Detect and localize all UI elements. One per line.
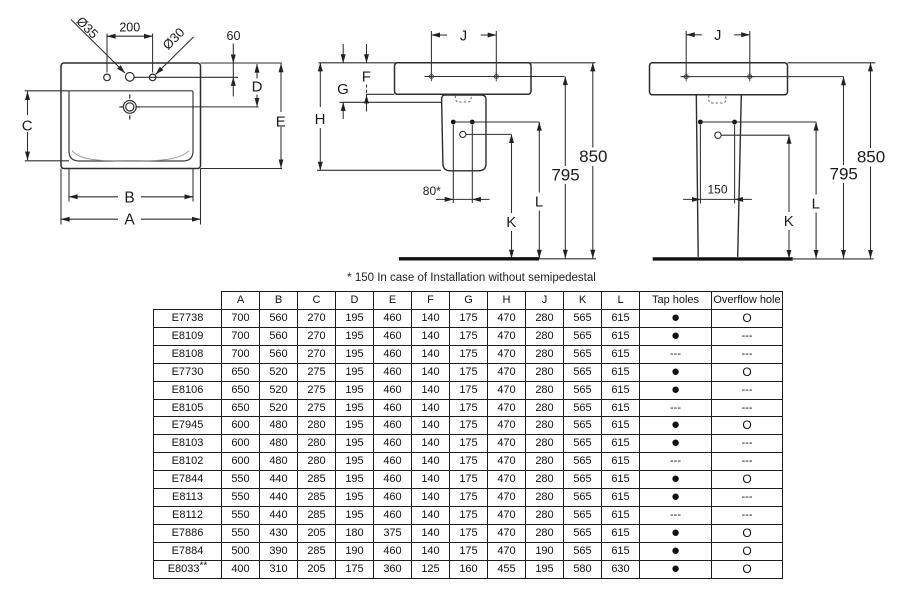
semipedestal view: basin body: [395, 63, 532, 95]
drain hole line to dim K: [466, 133, 512, 135]
svg-text:C: C: [22, 118, 33, 135]
svg-text:850: 850: [579, 147, 607, 166]
basin fixing holes line: [425, 76, 565, 78]
plan view: basin outer rim: [61, 63, 201, 169]
svg-text:D: D: [252, 79, 263, 96]
pedestal left edge: [696, 95, 698, 257]
pedestal view: basin body: [650, 63, 788, 95]
pedestal drain hole: [715, 132, 721, 138]
pedestal drain recess (dashed): [709, 95, 726, 103]
dim D: [256, 64, 258, 79]
basin fixing hole left (pedestal view): [682, 72, 691, 81]
dim F: [366, 44, 368, 63]
semipedestal body: [442, 95, 486, 171]
plan view: basin bottom edge extension: [201, 168, 283, 170]
pedestal fixing holes line to dim L: [700, 121, 816, 123]
svg-text:F: F: [362, 69, 371, 86]
dim A extension lines: [60, 169, 62, 225]
dim A: [61, 218, 118, 220]
semipedestal fixing hole left: [451, 120, 456, 125]
plan view: tap hole left: [104, 74, 111, 81]
dim 80* extension lines: [452, 125, 454, 203]
svg-text:K: K: [506, 214, 516, 231]
dim 850 (pedestal view): [870, 63, 872, 148]
semipedestal view: wall reference line: [319, 62, 596, 64]
dim 850 (semipedestal view): [592, 63, 594, 148]
svg-text:A: A: [124, 212, 135, 229]
dim K (semipedestal view): [511, 134, 513, 213]
svg-text:H: H: [315, 111, 326, 128]
dim B extension lines: [68, 168, 70, 202]
semipedestal fixing hole right: [470, 120, 475, 125]
dim 200 extension lines: [106, 34, 108, 73]
svg-text:200: 200: [119, 21, 140, 35]
svg-text:850: 850: [857, 148, 885, 167]
svg-text:* 150 In case of Installation: * 150 In case of Installation without se…: [347, 272, 596, 284]
plan view: bowl floor curve: [72, 151, 189, 162]
semipedestal view: fixing level line: [340, 101, 442, 103]
svg-text:G: G: [337, 81, 349, 98]
leader line diameter 30: [156, 37, 194, 74]
svg-text:L: L: [812, 196, 820, 213]
svg-text:J: J: [714, 28, 721, 44]
svg-text:B: B: [124, 189, 134, 206]
svg-text:Ø30: Ø30: [160, 25, 188, 53]
svg-text:795: 795: [830, 165, 858, 184]
pedestal view: basin top edge extension: [788, 62, 876, 64]
svg-text:L: L: [535, 194, 543, 211]
faucet centreline to dim D: [140, 106, 258, 108]
svg-text:80*: 80*: [423, 184, 441, 198]
svg-text:795: 795: [551, 166, 579, 185]
semipedestal view: basin bottom extension: [366, 93, 395, 95]
dim 200: [107, 35, 153, 37]
faucet symbol: [119, 94, 140, 119]
semipedestal drain recess (dashed): [455, 96, 471, 103]
dim H: [319, 63, 321, 107]
plan view: tap hole right: [149, 74, 156, 81]
svg-text:150: 150: [707, 183, 727, 197]
dim J (pedestal view): [686, 34, 702, 36]
svg-text:E: E: [276, 114, 286, 131]
dim 795 (pedestal view): [843, 77, 845, 165]
basin fixing hole left (cross mark): [427, 72, 436, 81]
semipedestal bottom level line: [317, 169, 441, 171]
dim 150 extension lines: [699, 125, 701, 204]
pedestal fixing hole right: [732, 120, 737, 125]
fixing holes line to dim L: [453, 121, 539, 123]
dim J extension lines (pedestal view): [685, 31, 687, 77]
dim C: [27, 91, 29, 115]
dim L (semipedestal view): [538, 122, 540, 193]
floor line (pedestal view): [653, 257, 793, 260]
pedestal right edge: [738, 95, 742, 257]
basin fixing hole right (cross mark): [492, 72, 501, 81]
dim 795 (semipedestal view): [564, 77, 566, 167]
dim L (pedestal view): [815, 122, 817, 195]
leader line diameter 35: [71, 20, 125, 74]
basin fixing holes line (pedestal view): [681, 76, 844, 78]
plan view: tap hole centre: [126, 73, 135, 82]
svg-text:K: K: [784, 213, 794, 230]
plan view: basin top edge extension: [201, 62, 282, 64]
basin fixing hole right (pedestal view): [745, 72, 754, 81]
dim J extension lines (semipedestal view): [430, 31, 432, 78]
floor line (semipedestal view): [399, 257, 539, 260]
svg-text:Ø35: Ø35: [73, 14, 101, 42]
drain hole line to dim K (pedestal view): [721, 134, 789, 136]
dim C extension lines: [25, 90, 69, 92]
dim G: [342, 44, 344, 63]
plan view: tap holes centreline: [134, 76, 238, 78]
plan view: basin inner bowl: [69, 91, 193, 161]
svg-text:60: 60: [227, 29, 241, 43]
semipedestal drain hole: [460, 131, 466, 137]
svg-text:J: J: [460, 28, 467, 44]
dim J (semipedestal view): [431, 34, 447, 36]
dim B: [69, 196, 118, 198]
pedestal fixing hole left: [698, 120, 703, 125]
dim K (pedestal view): [788, 135, 790, 212]
dim E: [280, 64, 282, 112]
